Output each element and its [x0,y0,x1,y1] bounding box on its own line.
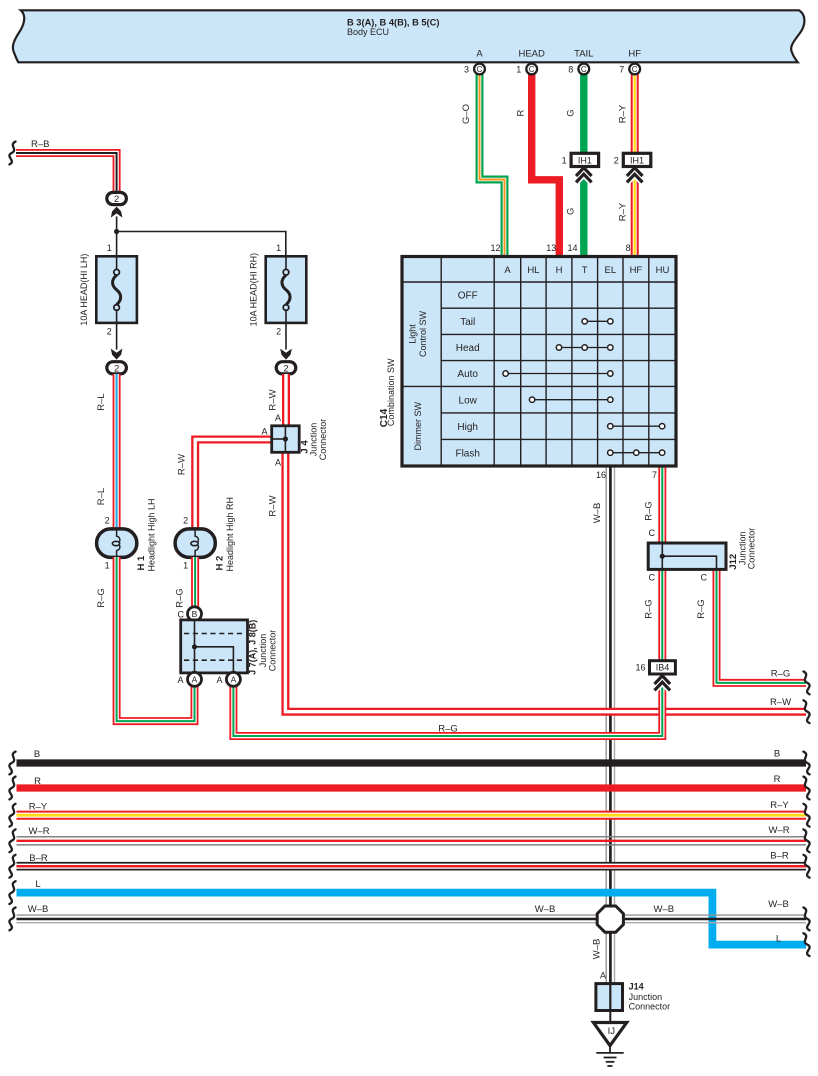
svg-text:C: C [649,572,656,582]
svg-text:A: A [275,413,281,423]
svg-text:B: B [774,749,780,760]
svg-text:8: 8 [626,243,631,253]
svg-text:HEAD: HEAD [518,49,545,60]
svg-text:C: C [632,65,638,74]
svg-text:R–B: R–B [31,139,49,150]
svg-text:W–R: W–R [28,826,49,837]
svg-text:H 2: H 2 [215,556,226,571]
svg-text:7: 7 [652,470,657,480]
svg-text:A: A [216,675,222,685]
svg-text:R–G: R–G [644,599,655,619]
svg-text:B: B [192,609,198,619]
svg-text:R–W: R–W [267,495,278,516]
svg-text:W–B: W–B [592,503,603,524]
svg-text:Junction: Junction [258,634,268,668]
svg-text:B–R: B–R [770,851,789,862]
svg-text:A: A [504,265,511,276]
svg-text:W–B: W–B [768,899,789,910]
svg-text:Body ECU: Body ECU [347,27,389,37]
svg-text:R: R [515,109,526,116]
svg-text:OFF: OFF [458,291,478,302]
svg-text:R–G: R–G [696,599,707,619]
svg-text:A: A [261,427,267,437]
svg-text:H: H [556,265,563,276]
svg-text:Head: Head [456,343,480,354]
svg-text:Connector: Connector [746,528,756,570]
svg-text:Connector: Connector [318,419,328,461]
svg-text:B 3(A), B 4(B), B 5(C): B 3(A), B 4(B), B 5(C) [347,18,439,28]
svg-text:Connector: Connector [629,1001,671,1011]
svg-text:R–W: R–W [770,697,791,708]
svg-text:A: A [476,49,483,60]
svg-text:13: 13 [546,243,556,253]
svg-text:A: A [177,675,183,685]
svg-text:12: 12 [490,243,500,253]
svg-text:EL: EL [604,265,616,276]
svg-text:A: A [275,457,281,467]
svg-text:1: 1 [516,65,521,75]
svg-text:R–Y: R–Y [617,202,628,221]
svg-text:A: A [231,675,237,685]
svg-text:C: C [581,65,587,74]
svg-text:2: 2 [276,326,281,336]
svg-text:1: 1 [276,243,281,253]
svg-text:16: 16 [635,663,645,673]
svg-text:R: R [34,776,41,787]
svg-text:J 7(A), J 8(B): J 7(A), J 8(B) [247,620,257,675]
svg-text:2: 2 [283,364,288,375]
svg-text:C: C [649,528,656,538]
svg-text:A: A [600,971,606,981]
svg-text:1: 1 [562,155,567,165]
svg-text:7: 7 [619,65,624,75]
svg-text:R–W: R–W [177,454,188,475]
svg-text:2: 2 [114,194,119,205]
svg-text:2: 2 [614,155,619,165]
svg-text:W–R: W–R [768,825,789,836]
svg-text:10A HEAD(HI RH): 10A HEAD(HI RH) [249,253,259,327]
svg-text:HU: HU [656,265,670,276]
svg-text:R–G: R–G [644,501,655,521]
svg-text:R–Y: R–Y [770,800,789,811]
svg-text:2: 2 [114,364,119,375]
svg-text:Light: Light [408,324,418,344]
svg-text:Junction: Junction [629,992,663,1002]
svg-text:T: T [582,265,588,276]
svg-text:B–R: B–R [29,853,48,864]
svg-text:L: L [35,879,40,890]
svg-text:W–B: W–B [535,904,556,915]
svg-text:HL: HL [527,265,539,276]
svg-text:H 1: H 1 [136,555,147,571]
svg-text:R: R [774,774,781,785]
svg-text:W–B: W–B [591,939,602,960]
svg-text:IB4: IB4 [656,663,670,673]
svg-text:W–B: W–B [654,904,675,915]
svg-text:Headlight High LH: Headlight High LH [147,498,157,571]
svg-text:Connector: Connector [268,630,278,672]
svg-text:HF: HF [628,49,641,60]
svg-text:G–O: G–O [461,104,472,124]
svg-text:R–G: R–G [771,669,791,680]
svg-text:16: 16 [596,470,606,480]
svg-text:High: High [457,422,478,433]
svg-text:8: 8 [568,65,573,75]
svg-text:G: G [566,208,577,215]
svg-text:R–G: R–G [175,588,186,608]
svg-text:B: B [34,749,40,760]
svg-text:R–Y: R–Y [617,104,628,123]
svg-text:Junction: Junction [308,423,318,457]
svg-text:TAIL: TAIL [574,49,593,60]
svg-text:R–G: R–G [438,724,458,735]
svg-text:Combination SW: Combination SW [386,358,396,426]
svg-text:1: 1 [107,243,112,253]
svg-text:R–W: R–W [267,389,278,410]
svg-text:C: C [477,65,483,74]
svg-text:Headlight High RH: Headlight High RH [225,497,235,572]
svg-text:C: C [701,572,708,582]
svg-text:1: 1 [183,560,188,570]
svg-text:G: G [566,109,577,116]
svg-text:Low: Low [459,395,478,406]
svg-text:C: C [178,609,185,619]
svg-text:R–L: R–L [96,393,107,410]
svg-text:IJ: IJ [608,1026,616,1037]
svg-text:R–Y: R–Y [29,801,48,812]
svg-text:2: 2 [107,326,112,336]
svg-text:L: L [776,934,781,945]
svg-text:Auto: Auto [457,369,478,380]
svg-text:W–B: W–B [28,904,49,915]
svg-text:Control SW: Control SW [418,310,428,357]
svg-text:Tail: Tail [460,317,475,328]
svg-text:2: 2 [183,515,188,525]
svg-text:3: 3 [464,65,469,75]
svg-text:2: 2 [105,515,110,525]
svg-text:IH1: IH1 [578,155,592,165]
svg-text:HF: HF [630,265,643,276]
svg-text:R–L: R–L [96,488,107,505]
svg-text:C: C [529,65,535,74]
svg-text:R–G: R–G [96,588,107,608]
svg-text:IH1: IH1 [630,155,644,165]
svg-text:10A HEAD(HI LH): 10A HEAD(HI LH) [79,254,89,326]
svg-text:1: 1 [105,560,110,570]
svg-text:J14: J14 [629,981,644,991]
svg-text:A: A [192,675,198,685]
svg-text:Flash: Flash [455,448,479,459]
svg-text:Dimmer SW: Dimmer SW [413,401,423,450]
svg-text:14: 14 [567,243,577,253]
